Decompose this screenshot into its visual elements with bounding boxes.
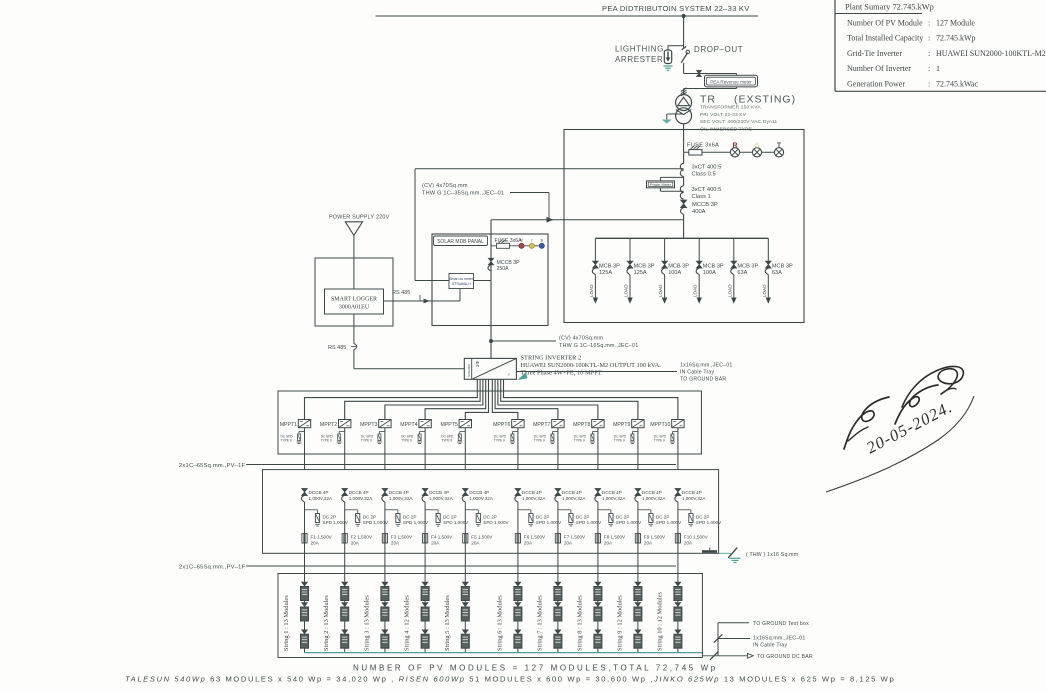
power meter box <box>647 181 675 188</box>
svg-text:HUAWEI SUN2000-100KTL-M2 OUTPU: HUAWEI SUN2000-100KTL-M2 OUTPUT 100 kVA. <box>521 362 662 369</box>
wye symbol in secondary <box>676 110 691 115</box>
svg-text:TO GROUND DC BAR: TO GROUND DC BAR <box>757 654 813 660</box>
fuse F6 1500V 20A <box>515 534 520 544</box>
svg-text:DCCB 4P: DCCB 4P <box>429 490 449 495</box>
wire feeder 6 to load <box>767 275 769 299</box>
wire feeder 6 drop <box>767 238 769 261</box>
CT 3xCT 400:5 class 0.5 <box>680 163 683 170</box>
svg-text:20A: 20A <box>431 540 440 545</box>
wire PEA 22-33kV bus <box>376 15 759 17</box>
svg-text:20A: 20A <box>524 540 533 545</box>
wire module links string 6 <box>517 601 519 603</box>
svg-text:72.745.kWac: 72.745.kWac <box>936 80 978 89</box>
svg-text:1,000V,32A: 1,000V,32A <box>309 496 334 501</box>
CT 3xCT 400:5 class 1 <box>680 186 683 193</box>
svg-text:SMART LOGGER: SMART LOGGER <box>331 297 377 303</box>
svg-text:MPPT5: MPPT5 <box>441 422 458 428</box>
svg-text:PEA Revenue meter: PEA Revenue meter <box>710 79 752 84</box>
svg-text:DC 2P: DC 2P <box>403 514 417 519</box>
arrow load feeder 5 <box>731 298 736 304</box>
svg-text:String 6 : 13 Modules: String 6 : 13 Modules <box>496 595 503 651</box>
svg-text:Plant Sumary 72.745.kWp: Plant Sumary 72.745.kWp <box>845 3 934 12</box>
MPPT3 DC-DC box <box>379 420 391 428</box>
svg-text:DC 2P: DC 2P <box>616 514 630 519</box>
wire module links string 5 <box>464 601 466 603</box>
svg-text:SEC VOLT: 400/230V VAC.Dyn1: SEC VOLT: 400/230V VAC.Dyn11 <box>700 119 777 125</box>
svg-text:TO GROUND BAR: TO GROUND BAR <box>680 376 726 382</box>
wire string 2 drop <box>344 502 346 582</box>
svg-text:2x1C–65Sq.mm.,PV–1F: 2x1C–65Sq.mm.,PV–1F <box>179 565 246 571</box>
wire ground cable tray <box>718 638 750 640</box>
svg-text:DCCB 4P: DCCB 4P <box>389 490 409 495</box>
wire MCCB to junction <box>683 215 685 239</box>
svg-text:F1 1,500V: F1 1,500V <box>311 534 333 539</box>
fuse F4 1500V 20A <box>423 534 428 544</box>
transformer TR primary winding <box>676 95 692 111</box>
drop-out fuse cutout <box>682 46 687 49</box>
svg-text:TRANSFORMER 250 KVA.: TRANSFORMER 250 KVA. <box>700 105 762 111</box>
svg-text:DCCB 4P: DCCB 4P <box>469 490 489 495</box>
svg-text:String 3 : 13 Modules: String 3 : 13 Modules <box>363 595 370 651</box>
pilot lamp T <box>774 148 783 157</box>
svg-text:20A: 20A <box>471 540 480 545</box>
svg-text:F10 1,500V: F10 1,500V <box>684 534 709 539</box>
svg-text:MPPT6: MPPT6 <box>493 422 510 428</box>
smart logger box <box>325 289 384 314</box>
MPPT1 DC-DC box <box>298 420 310 428</box>
PV module 2 string 5 <box>462 602 469 607</box>
svg-text:TYPE II: TYPE II <box>361 439 372 443</box>
wire module links string 7 <box>557 601 559 603</box>
fuse F3 1500V 20A <box>382 534 387 544</box>
breaker MCB 3P 125A feeder 2 <box>627 261 633 268</box>
svg-text:20A: 20A <box>391 540 400 545</box>
svg-text:MPPT1: MPPT1 <box>280 422 297 428</box>
wire feeder 4 drop <box>698 238 700 261</box>
arrow load feeder 4 <box>697 298 702 304</box>
wire module links string 4 <box>424 601 426 603</box>
svg-text:MCCB 3P: MCCB 3P <box>692 202 718 208</box>
wire branch to lightning arrester <box>668 45 684 47</box>
svg-text:DC 2P: DC 2P <box>443 514 457 519</box>
ground return bus teal <box>305 652 703 654</box>
svg-text:63A: 63A <box>737 270 747 276</box>
fuse F8 1500V 20A <box>595 534 600 544</box>
wire to ground test box <box>717 623 719 656</box>
svg-text:DC 2P: DC 2P <box>576 514 590 519</box>
PV module 1 string 3 <box>381 582 388 587</box>
node junction on PEA bus <box>682 14 686 18</box>
inverter U1 SUN2000-100KTL-M2 <box>464 358 516 379</box>
svg-text:1,000V,32A: 1,000V,32A <box>349 496 374 501</box>
wire module links string 3 <box>384 601 386 603</box>
smart logger outer box <box>315 258 393 326</box>
SPD branch MPPT8 <box>592 431 598 433</box>
svg-text:220V: 220V <box>376 215 390 221</box>
breaker MCB 3P 63A feeder 5 <box>731 261 737 268</box>
MPPT9 DC-DC box <box>632 420 644 428</box>
wire MPPT5 DC pair <box>465 379 488 419</box>
svg-text:DC 2P: DC 2P <box>696 514 710 519</box>
svg-text:MCB 3P: MCB 3P <box>772 263 793 269</box>
svg-text:1,000V,32A: 1,000V,32A <box>389 496 414 501</box>
svg-text:400A: 400A <box>692 209 706 215</box>
svg-text:DCCB 4P: DCCB 4P <box>309 490 329 495</box>
breaker DCCB 4P column 6 <box>515 488 521 495</box>
wire feeder 5 to load <box>733 275 735 299</box>
wire MPPT1 DC pair <box>305 379 478 419</box>
svg-text:MPPT4: MPPT4 <box>400 422 417 428</box>
svg-text:String 8 : 13 Modules: String 8 : 13 Modules <box>576 595 583 651</box>
svg-text:MCB 3P: MCB 3P <box>668 263 689 269</box>
wire module links string 9 <box>637 601 639 603</box>
meter CT bracket <box>684 73 737 75</box>
svg-text:TO GROUND Test box: TO GROUND Test box <box>753 621 809 627</box>
PV strings enclosure <box>278 574 702 658</box>
svg-text:DC 2P: DC 2P <box>363 514 377 519</box>
svg-text:Class 1: Class 1 <box>692 194 711 200</box>
ground of arrester <box>664 65 673 67</box>
svg-text:127 Module: 127 Module <box>936 18 975 27</box>
smart meter box <box>449 274 474 289</box>
svg-text:2x1C–65Sq.mm.,PV–1F: 2x1C–65Sq.mm.,PV–1F <box>179 463 246 469</box>
svg-text:(EXSTING): (EXSTING) <box>734 94 796 106</box>
wire MPPT10 output <box>677 428 679 470</box>
svg-text:SOLAR MDB PANAL: SOLAR MDB PANAL <box>437 239 484 245</box>
svg-text:F9 1,500V: F9 1,500V <box>644 534 666 539</box>
breaker MCB 3P 125A feeder 1 <box>592 261 598 268</box>
svg-text:String 4 : 12 Modules: String 4 : 12 Modules <box>404 595 411 651</box>
svg-text:F8 1,500V: F8 1,500V <box>604 534 626 539</box>
wire MPPT9 DC pair <box>501 379 638 419</box>
svg-text:TYPE II: TYPE II <box>441 439 452 443</box>
wire MPPT8 output <box>597 428 599 470</box>
svg-text:MPPT9: MPPT9 <box>613 422 630 428</box>
triple slash phase marks <box>681 88 687 92</box>
svg-text:IN Cable Tray: IN Cable Tray <box>753 642 788 648</box>
svg-text:String 10 : 12 Modules: String 10 : 12 Modules <box>656 592 663 651</box>
svg-text:(CV) 4x70Sq.mm: (CV) 4x70Sq.mm <box>422 183 468 189</box>
SPD branch MPPT6 <box>512 431 518 433</box>
PV module 3 string 4 <box>422 630 429 635</box>
breaker MCB 3P 63A feeder 6 <box>765 261 771 268</box>
breaker DCCB 4P column 7 <box>555 488 561 495</box>
wire logger to inverter RS485 <box>353 314 355 344</box>
svg-text:F6 1,500V: F6 1,500V <box>524 534 546 539</box>
wire feeder 2 drop <box>629 238 631 261</box>
breaker DCCB 4P column 9 <box>635 488 641 495</box>
wire feeder 2 to load <box>629 275 631 299</box>
wire module links string 2 <box>344 601 346 603</box>
svg-text:3Φ: 3Φ <box>475 361 480 367</box>
solar MDB title box <box>434 236 488 246</box>
svg-text:String 5 : 13 Modules: String 5 : 13 Modules <box>444 595 451 651</box>
SPD branch column 6 <box>518 509 531 511</box>
svg-text:1,000V,32A: 1,000V,32A <box>522 496 547 501</box>
SPD branch column 9 <box>638 509 651 511</box>
svg-text:String 9 : 12 Modules: String 9 : 12 Modules <box>616 595 623 651</box>
SPD branch column 2 <box>345 509 358 511</box>
pilot lamp Y solar <box>529 243 534 248</box>
wire feeder 3 drop <box>664 238 666 261</box>
svg-text:20A: 20A <box>644 540 653 545</box>
svg-text:DC 2P: DC 2P <box>536 514 550 519</box>
delta symbol in primary <box>678 97 690 106</box>
leader PV cable lower <box>246 565 676 567</box>
svg-text:S: S <box>755 143 760 150</box>
svg-text::: : <box>928 64 930 73</box>
breaker DCCB 4P column 8 <box>595 488 601 495</box>
PEA Revenue meter box <box>705 75 758 87</box>
PV module 1 string 4 <box>422 582 429 587</box>
MDB panel enclosure <box>564 130 804 323</box>
wire to ground DC bar <box>702 655 747 657</box>
SPD branch column 10 <box>678 509 691 511</box>
transformer TR secondary winding <box>676 108 692 124</box>
svg-text:Number Of Inverter: Number Of Inverter <box>847 64 911 73</box>
wire pilot lamp branch <box>684 151 779 153</box>
SPD branch column 5 <box>465 509 478 511</box>
solar MDB enclosure <box>432 234 548 326</box>
SPD branch MPPT4 <box>420 431 426 433</box>
SPD branch column 7 <box>558 509 571 511</box>
svg-text:FUSE 3x6A: FUSE 3x6A <box>495 238 523 244</box>
svg-text:1,000V,32A: 1,000V,32A <box>429 496 454 501</box>
wire CT1 to CT2 <box>683 177 685 186</box>
wire MPPT5 output <box>464 428 466 470</box>
svg-text:Three Phase 4W+PE, 10 MPPT: Three Phase 4W+PE, 10 MPPT <box>521 370 602 377</box>
PV module 1 string 2 <box>341 582 348 587</box>
PV module 2 string 10 <box>674 602 681 607</box>
wire string 7 drop <box>557 502 559 582</box>
arrow load feeder 6 <box>766 298 771 304</box>
svg-text:~: ~ <box>507 373 513 376</box>
wire string 5 drop <box>464 502 466 582</box>
MPPT10 DC-DC box <box>672 420 684 428</box>
svg-text:HUAWEI SUN2000-100KTL-M2: HUAWEI SUN2000-100KTL-M2 <box>936 49 1046 58</box>
svg-text:DCCB 4P: DCCB 4P <box>602 490 622 495</box>
svg-text:LOAD: LOAD <box>589 284 594 297</box>
svg-text:20A: 20A <box>564 540 573 545</box>
wire MPPT2 output <box>344 428 346 470</box>
svg-text:100A: 100A <box>703 270 716 276</box>
MPPT4 DC-DC box <box>419 420 431 428</box>
breaker MCCB 3P 250A <box>488 258 494 265</box>
svg-text:FUSE 3x6A: FUSE 3x6A <box>687 142 719 148</box>
fuse F2 1500V 20A <box>342 534 347 544</box>
svg-text:125A: 125A <box>634 270 647 276</box>
svg-text:MCB 3P: MCB 3P <box>703 263 724 269</box>
wire string 10 drop <box>677 502 679 582</box>
svg-text:LIGHTHING: LIGHTHING <box>615 45 664 54</box>
wire smart meter to riser <box>474 280 492 282</box>
svg-text:F3 1,500V: F3 1,500V <box>391 534 413 539</box>
leader PV cable upper <box>246 464 676 466</box>
wire MPPT6 output <box>517 428 519 470</box>
svg-text:TYPE II: TYPE II <box>321 439 332 443</box>
arrow load feeder 2 <box>627 298 632 304</box>
svg-text:3xCT 400:5: 3xCT 400:5 <box>692 187 722 193</box>
svg-text:TALESUN 540Wp 63 MODULES x: TALESUN 540Wp 63 MODULES x 540 Wp = 34,0… <box>125 675 895 684</box>
svg-text:3000A01EU: 3000A01EU <box>339 305 370 311</box>
svg-text:1: 1 <box>936 64 940 73</box>
wire MPPT7 output <box>557 428 559 470</box>
breaker MCB 3P 100A feeder 4 <box>696 261 702 268</box>
svg-text:SPD 1,000V: SPD 1,000V <box>483 520 509 525</box>
svg-text:MPPT7: MPPT7 <box>533 422 550 428</box>
power-meter CT bracket <box>661 176 684 178</box>
svg-text::: : <box>928 49 930 58</box>
PV module 2 string 1 <box>301 602 308 607</box>
svg-text:3xCT 400:5: 3xCT 400:5 <box>692 165 722 171</box>
wire string 6 drop <box>517 502 519 582</box>
wire module links string 1 <box>304 601 306 603</box>
svg-text:72.745.kWp: 72.745.kWp <box>936 34 976 43</box>
svg-text:ARRESTER: ARRESTER <box>615 55 663 64</box>
svg-text:THW G 1C–35Sq.mm.,JEC–01: THW G 1C–35Sq.mm.,JEC–01 <box>422 191 504 197</box>
svg-text:DC 2P: DC 2P <box>323 514 337 519</box>
wire ground bar to earth <box>719 552 731 554</box>
SPD branch MPPT3 <box>379 431 385 433</box>
svg-text:1x16Sq.mm.,JEC–01: 1x16Sq.mm.,JEC–01 <box>753 635 805 641</box>
svg-text:NUMBER OF PV MODULES = 12: NUMBER OF PV MODULES = 127 MODULES,TOTAL… <box>353 664 718 673</box>
svg-text:1x16Sq.mm.,JEC–01: 1x16Sq.mm.,JEC–01 <box>680 362 732 368</box>
breaker DCCB 4P column 5 <box>462 488 468 495</box>
svg-text:MPPT3: MPPT3 <box>360 422 377 428</box>
ground of transformer <box>662 120 672 124</box>
SPD branch column 8 <box>598 509 611 511</box>
PV module 3 string 3 <box>381 630 388 635</box>
svg-text:RS 485: RS 485 <box>392 290 410 296</box>
PV module 3 string 1 <box>301 630 308 635</box>
leader CV 4x70 label <box>510 192 549 194</box>
svg-text:Generation Power: Generation Power <box>847 80 905 89</box>
wire MPPT4 DC pair <box>425 379 486 419</box>
svg-text:SPD 1,000V: SPD 1,000V <box>696 520 722 525</box>
fuse F7 1500V 20A <box>555 534 560 544</box>
LV busbar <box>595 237 768 239</box>
SPD branch MPPT2 <box>339 431 345 433</box>
svg-text:DC 2P: DC 2P <box>656 514 670 519</box>
PV module 3 string 2 <box>341 630 348 635</box>
wire antenna to logger <box>353 235 355 289</box>
wire string 3 drop <box>384 502 386 582</box>
svg-text:( THW ) 1x16 Sq.mm: ( THW ) 1x16 Sq.mm <box>746 552 798 558</box>
svg-text:1,000V,32A: 1,000V,32A <box>562 496 587 501</box>
wire main bus fuse to CT <box>683 152 685 163</box>
wire MPPT9 output <box>637 428 639 470</box>
MPPT6 DC-DC box <box>512 420 524 428</box>
MPPT5 DC-DC box <box>459 420 471 428</box>
PV module 3 string 6 <box>514 630 521 635</box>
svg-text:PRI VOLT 22-33 KV: PRI VOLT 22-33 KV <box>700 112 747 118</box>
antenna power supply <box>345 222 362 236</box>
svg-text:MCB 3P: MCB 3P <box>634 263 655 269</box>
SPD branch MPPT7 <box>552 431 558 433</box>
svg-text:IN Cable Tray: IN Cable Tray <box>680 369 715 375</box>
wire feeder 1 to load <box>594 275 596 299</box>
SPD branch MPPT10 <box>672 431 678 433</box>
svg-text:String 7 : 13 Modules: String 7 : 13 Modules <box>536 595 543 651</box>
PV module 3 string 7 <box>554 630 561 635</box>
svg-text:250A: 250A <box>497 266 510 272</box>
PV module 1 string 6 <box>514 582 521 587</box>
svg-text::: : <box>928 80 930 89</box>
svg-text:Total Installed Capacity: Total Installed Capacity <box>847 34 923 43</box>
svg-text:MCB 3P: MCB 3P <box>737 263 758 269</box>
DC ground bar <box>702 550 717 553</box>
PV module 1 string 8 <box>594 582 601 587</box>
svg-text:100A: 100A <box>668 270 681 276</box>
wire solar pilot branch <box>491 245 542 247</box>
wire meter to transformer <box>683 89 685 95</box>
pilot lamp S <box>752 148 761 157</box>
svg-text:TYPE II: TYPE II <box>654 439 665 443</box>
wire AC feed from solar MDB <box>415 168 684 170</box>
svg-text:Power Meter: Power Meter <box>650 183 672 187</box>
SPD branch column 4 <box>425 509 438 511</box>
svg-text:LOAD: LOAD <box>727 284 732 297</box>
wire RS485 logger to meter <box>384 300 461 302</box>
breaker DCCB 4P column 4 <box>422 488 428 495</box>
svg-text:DCCB 4P: DCCB 4P <box>522 490 542 495</box>
PV module 2 string 8 <box>594 602 601 607</box>
wire MPPT4 output <box>424 428 426 470</box>
svg-text:POWER SUPPLY: POWER SUPPLY <box>329 215 374 221</box>
svg-text:DTSU666-H: DTSU666-H <box>452 282 472 286</box>
SPD branch MPPT9 <box>632 431 638 433</box>
breaker DCCB 4P column 1 <box>302 488 308 495</box>
svg-text:String 1 : 13 Modules: String 1 : 13 Modules <box>283 595 290 651</box>
wire MPPT10 DC pair <box>504 379 678 419</box>
svg-text:Number Of PV Module: Number Of PV Module <box>847 18 923 27</box>
svg-text:MPPT2: MPPT2 <box>320 422 337 428</box>
wire MPPT8 DC pair <box>498 379 598 419</box>
svg-text:DCCB 4P: DCCB 4P <box>642 490 662 495</box>
PV module 3 string 9 <box>634 630 641 635</box>
PV module 2 string 6 <box>514 602 521 607</box>
PV module 2 string 2 <box>341 602 348 607</box>
breaker MCCB 3P 400A <box>680 200 686 208</box>
wire MPPT3 output <box>384 428 386 470</box>
svg-text:20A: 20A <box>684 540 693 545</box>
wire string 9 drop <box>637 502 639 582</box>
svg-text:DROP–OUT: DROP–OUT <box>694 45 743 54</box>
wire transformer to MDB <box>683 124 685 153</box>
svg-text:R: R <box>732 143 737 150</box>
svg-text:TYPE II: TYPE II <box>401 439 412 443</box>
svg-text:String 2 : 13 Modules: String 2 : 13 Modules <box>323 595 330 651</box>
PV module 2 string 3 <box>381 602 388 607</box>
SPD branch MPPT1 <box>299 431 305 433</box>
PV module 2 string 7 <box>554 602 561 607</box>
svg-text:LOAD: LOAD <box>658 284 663 297</box>
svg-text:SUN2000: SUN2000 <box>467 364 471 377</box>
ground arrow at inverter <box>518 373 528 380</box>
wire MPPT7 DC pair <box>495 379 558 419</box>
PV module 1 string 10 <box>674 582 681 587</box>
wire main HV drop <box>683 16 685 49</box>
arrow on solar output wire <box>547 217 554 223</box>
svg-text:MPPT10: MPPT10 <box>650 422 670 428</box>
svg-text:1,000V,32A: 1,000V,32A <box>602 496 627 501</box>
signature scribble <box>844 397 889 449</box>
PV module 2 string 9 <box>634 602 641 607</box>
MPPT8 DC-DC box <box>592 420 604 428</box>
junction AC cable label point <box>489 339 493 343</box>
wire MPPT3 DC pair <box>385 379 483 419</box>
svg-text:20A: 20A <box>604 540 613 545</box>
